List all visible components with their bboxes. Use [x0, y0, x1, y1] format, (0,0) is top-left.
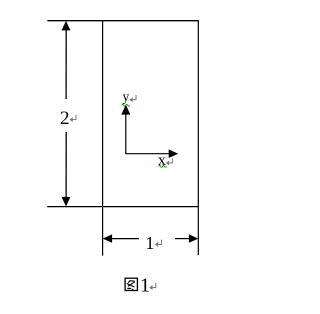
vertical dimension arrow upper segment: [62, 21, 71, 99]
paragraph mark after x: [166, 158, 173, 165]
y axis line: [125, 112, 127, 154]
paragraph mark after y: [130, 95, 137, 102]
x axis line: [125, 153, 171, 155]
horizontal dimension arrow right segment: [175, 234, 198, 242]
paragraph mark after 1: [155, 240, 162, 247]
paragraph mark after 2: [70, 115, 77, 122]
x axis arrowhead: [169, 149, 179, 158]
spellcheck squiggle under y: [122, 105, 130, 107]
top extension line: [47, 20, 198, 22]
bottom extension line: [47, 206, 198, 208]
y axis arrowhead: [121, 105, 130, 115]
svg-text:1: 1: [145, 233, 154, 253]
horizontal dimension arrow left segment: [103, 234, 139, 242]
vertical dimension arrow lower segment: [62, 132, 71, 206]
svg-text:y: y: [123, 89, 130, 104]
svg-text:2: 2: [60, 108, 70, 129]
caption character tu (figure) drawn as strokes: [125, 278, 137, 290]
rectangle left edge: [102, 20, 104, 255]
spellcheck squiggle under x: [159, 166, 167, 168]
svg-text:1: 1: [140, 275, 150, 297]
paragraph mark after caption: [149, 283, 156, 290]
rectangle right edge: [197, 20, 199, 255]
